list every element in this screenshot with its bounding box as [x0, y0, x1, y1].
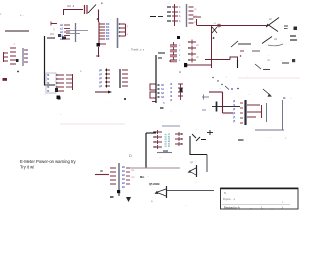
connector stub — [202, 96, 209, 98]
svg-text:j1: j1 — [232, 103, 236, 107]
junction — [177, 36, 180, 39]
IC U1 right column — [117, 18, 119, 48]
title block — [221, 188, 299, 209]
junction — [184, 64, 187, 67]
svg-text:Figure . .s: Figure . .s — [223, 197, 236, 201]
switch S1 — [88, 5, 96, 14]
IC U1 left column — [98, 22, 100, 44]
connector J4 — [188, 41, 196, 43]
relay arrow — [231, 41, 238, 47]
svg-text:...: ... — [250, 206, 252, 209]
wire W7 horizontal — [146, 132, 156, 134]
capacitor bank C3 C4 C5 C6 — [170, 44, 177, 46]
svg-text:C2 .1: C2 .1 — [67, 4, 75, 8]
svg-text:~ t: ~ t — [213, 21, 216, 25]
svg-text:...: ... — [219, 87, 221, 90]
svg-text:. .: . . — [160, 147, 162, 150]
wire W6b — [266, 103, 268, 122]
wire — [66, 30, 88, 32]
wire — [5, 30, 29, 32]
svg-text:j3: j3 — [232, 111, 236, 115]
transistor Q3 — [263, 89, 270, 95]
optocoupler U5 — [162, 125, 180, 127]
svg-text:s3: s3 — [274, 37, 277, 41]
svg-text:....: .... — [159, 156, 162, 159]
section divider — [60, 123, 125, 125]
wire — [193, 16, 201, 18]
potentiometer arrow — [212, 77, 213, 78]
svg-text:j0: j0 — [232, 99, 236, 103]
svg-text:Q5 2N39: Q5 2N39 — [149, 182, 160, 186]
svg-text:m1: m1 — [131, 169, 135, 172]
svg-text:r.: r. — [0, 12, 2, 16]
junction — [58, 97, 61, 100]
wire — [98, 47, 100, 57]
wire W7 vertical — [145, 133, 147, 168]
wire W6 — [247, 104, 260, 106]
svg-text:. .: . . — [268, 54, 270, 57]
connector J2 — [64, 24, 70, 26]
svg-text:..: .. — [290, 96, 292, 100]
junction — [184, 63, 187, 66]
svg-text:. . Theslk .u. s: . . Theslk .u. s — [128, 48, 145, 52]
ground bar — [3, 78, 8, 81]
svg-text:+ ..: + .. — [20, 13, 24, 17]
capacitor C2 — [63, 9, 83, 11]
svg-text:E-Meter Power-on warning try: E-Meter Power-on warning try — [20, 159, 77, 164]
svg-text:..: .. — [271, 206, 273, 209]
wire W10 — [209, 91, 223, 93]
wire W3 — [205, 59, 230, 61]
svg-text:B:8.B:8.B:8: B:8.B:8.B:8 — [167, 133, 171, 147]
svg-text:\ .: \ . — [285, 137, 287, 140]
svg-text:.r: .r — [13, 42, 15, 46]
wire W2 — [187, 64, 212, 66]
section divider — [238, 77, 300, 79]
svg-text:M.: M. — [283, 96, 286, 100]
svg-text:. . .: . . . — [268, 136, 272, 139]
switch S3 — [262, 37, 272, 44]
svg-text:\ ..: \ .. — [282, 200, 285, 204]
svg-text:j4: j4 — [232, 115, 236, 119]
svg-text:8.B:8.B:8.8: 8.B:8.B:8.8 — [164, 133, 168, 147]
svg-text:D5: D5 — [106, 37, 110, 41]
svg-text:Revised by A: Revised by A — [224, 205, 240, 209]
fuse F1 — [218, 24, 221, 27]
wire W4 — [44, 36, 46, 86]
wire W5 — [155, 55, 157, 103]
tap junction — [212, 27, 217, 33]
transistor Q1 — [196, 165, 198, 177]
ground — [110, 196, 114, 198]
resistor R3 — [157, 152, 172, 154]
IC U3 column B — [119, 69, 121, 88]
svg-text:Try it w!: Try it w! — [20, 165, 34, 170]
junction — [57, 96, 61, 100]
svg-text:D: D — [129, 153, 132, 158]
capacitor C8 — [212, 106, 240, 108]
svg-text:. .: . . — [168, 2, 170, 5]
resistor R1 — [150, 16, 156, 18]
connector J1 — [51, 23, 57, 25]
resistor network RN1 — [174, 4, 176, 26]
svg-text:...: ... — [147, 175, 149, 178]
svg-text:l ..: l .. — [261, 205, 264, 209]
svg-text:j2: j2 — [232, 107, 236, 111]
transformer T1 — [150, 84, 156, 90]
svg-text:. .: . . — [281, 59, 283, 62]
svg-text:...: ... — [185, 204, 187, 207]
svg-text:q.: q. — [151, 200, 153, 203]
svg-text:j5: j5 — [232, 119, 236, 123]
svg-text:r..: r.. — [80, 69, 82, 73]
wire — [98, 10, 100, 23]
connector J6 — [95, 174, 109, 176]
wire — [152, 101, 156, 103]
wire — [95, 91, 108, 93]
IC U2 — [46, 73, 56, 93]
wire W1 — [197, 25, 268, 27]
svg-text:N .: N . — [224, 191, 228, 195]
capacitor C7 — [207, 132, 213, 134]
svg-text:MA.: MA. — [140, 175, 145, 179]
svg-text:m2: m2 — [131, 176, 135, 179]
wire W8 — [189, 136, 191, 155]
connector J3 — [186, 4, 188, 27]
switch S2 — [266, 18, 279, 28]
wire stub — [238, 139, 244, 141]
svg-text:...: ... — [225, 75, 227, 78]
diode D3 — [192, 134, 196, 138]
wire W9 — [167, 190, 214, 192]
